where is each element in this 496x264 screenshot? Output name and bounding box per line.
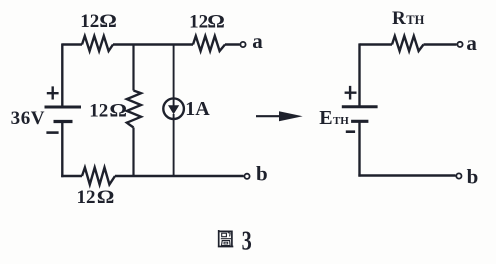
svg-text:3: 3 <box>242 227 252 256</box>
svg-text:Ω: Ω <box>207 10 225 32</box>
svg-text:36V: 36V <box>11 108 46 129</box>
svg-text:12: 12 <box>77 187 96 208</box>
svg-text:b: b <box>467 164 479 188</box>
svg-text:ETH: ETH <box>319 107 349 129</box>
svg-text:1A: 1A <box>185 98 210 120</box>
svg-text:12: 12 <box>80 11 99 32</box>
svg-text:b: b <box>256 161 268 185</box>
svg-text:Ω: Ω <box>97 186 115 208</box>
svg-text:Ω: Ω <box>99 10 117 32</box>
svg-text:a: a <box>466 31 477 55</box>
svg-text:Ω: Ω <box>109 100 127 122</box>
svg-text:RTH: RTH <box>392 8 425 29</box>
svg-text:12: 12 <box>89 101 108 122</box>
svg-text:a: a <box>252 29 263 53</box>
svg-text:12: 12 <box>189 11 208 32</box>
